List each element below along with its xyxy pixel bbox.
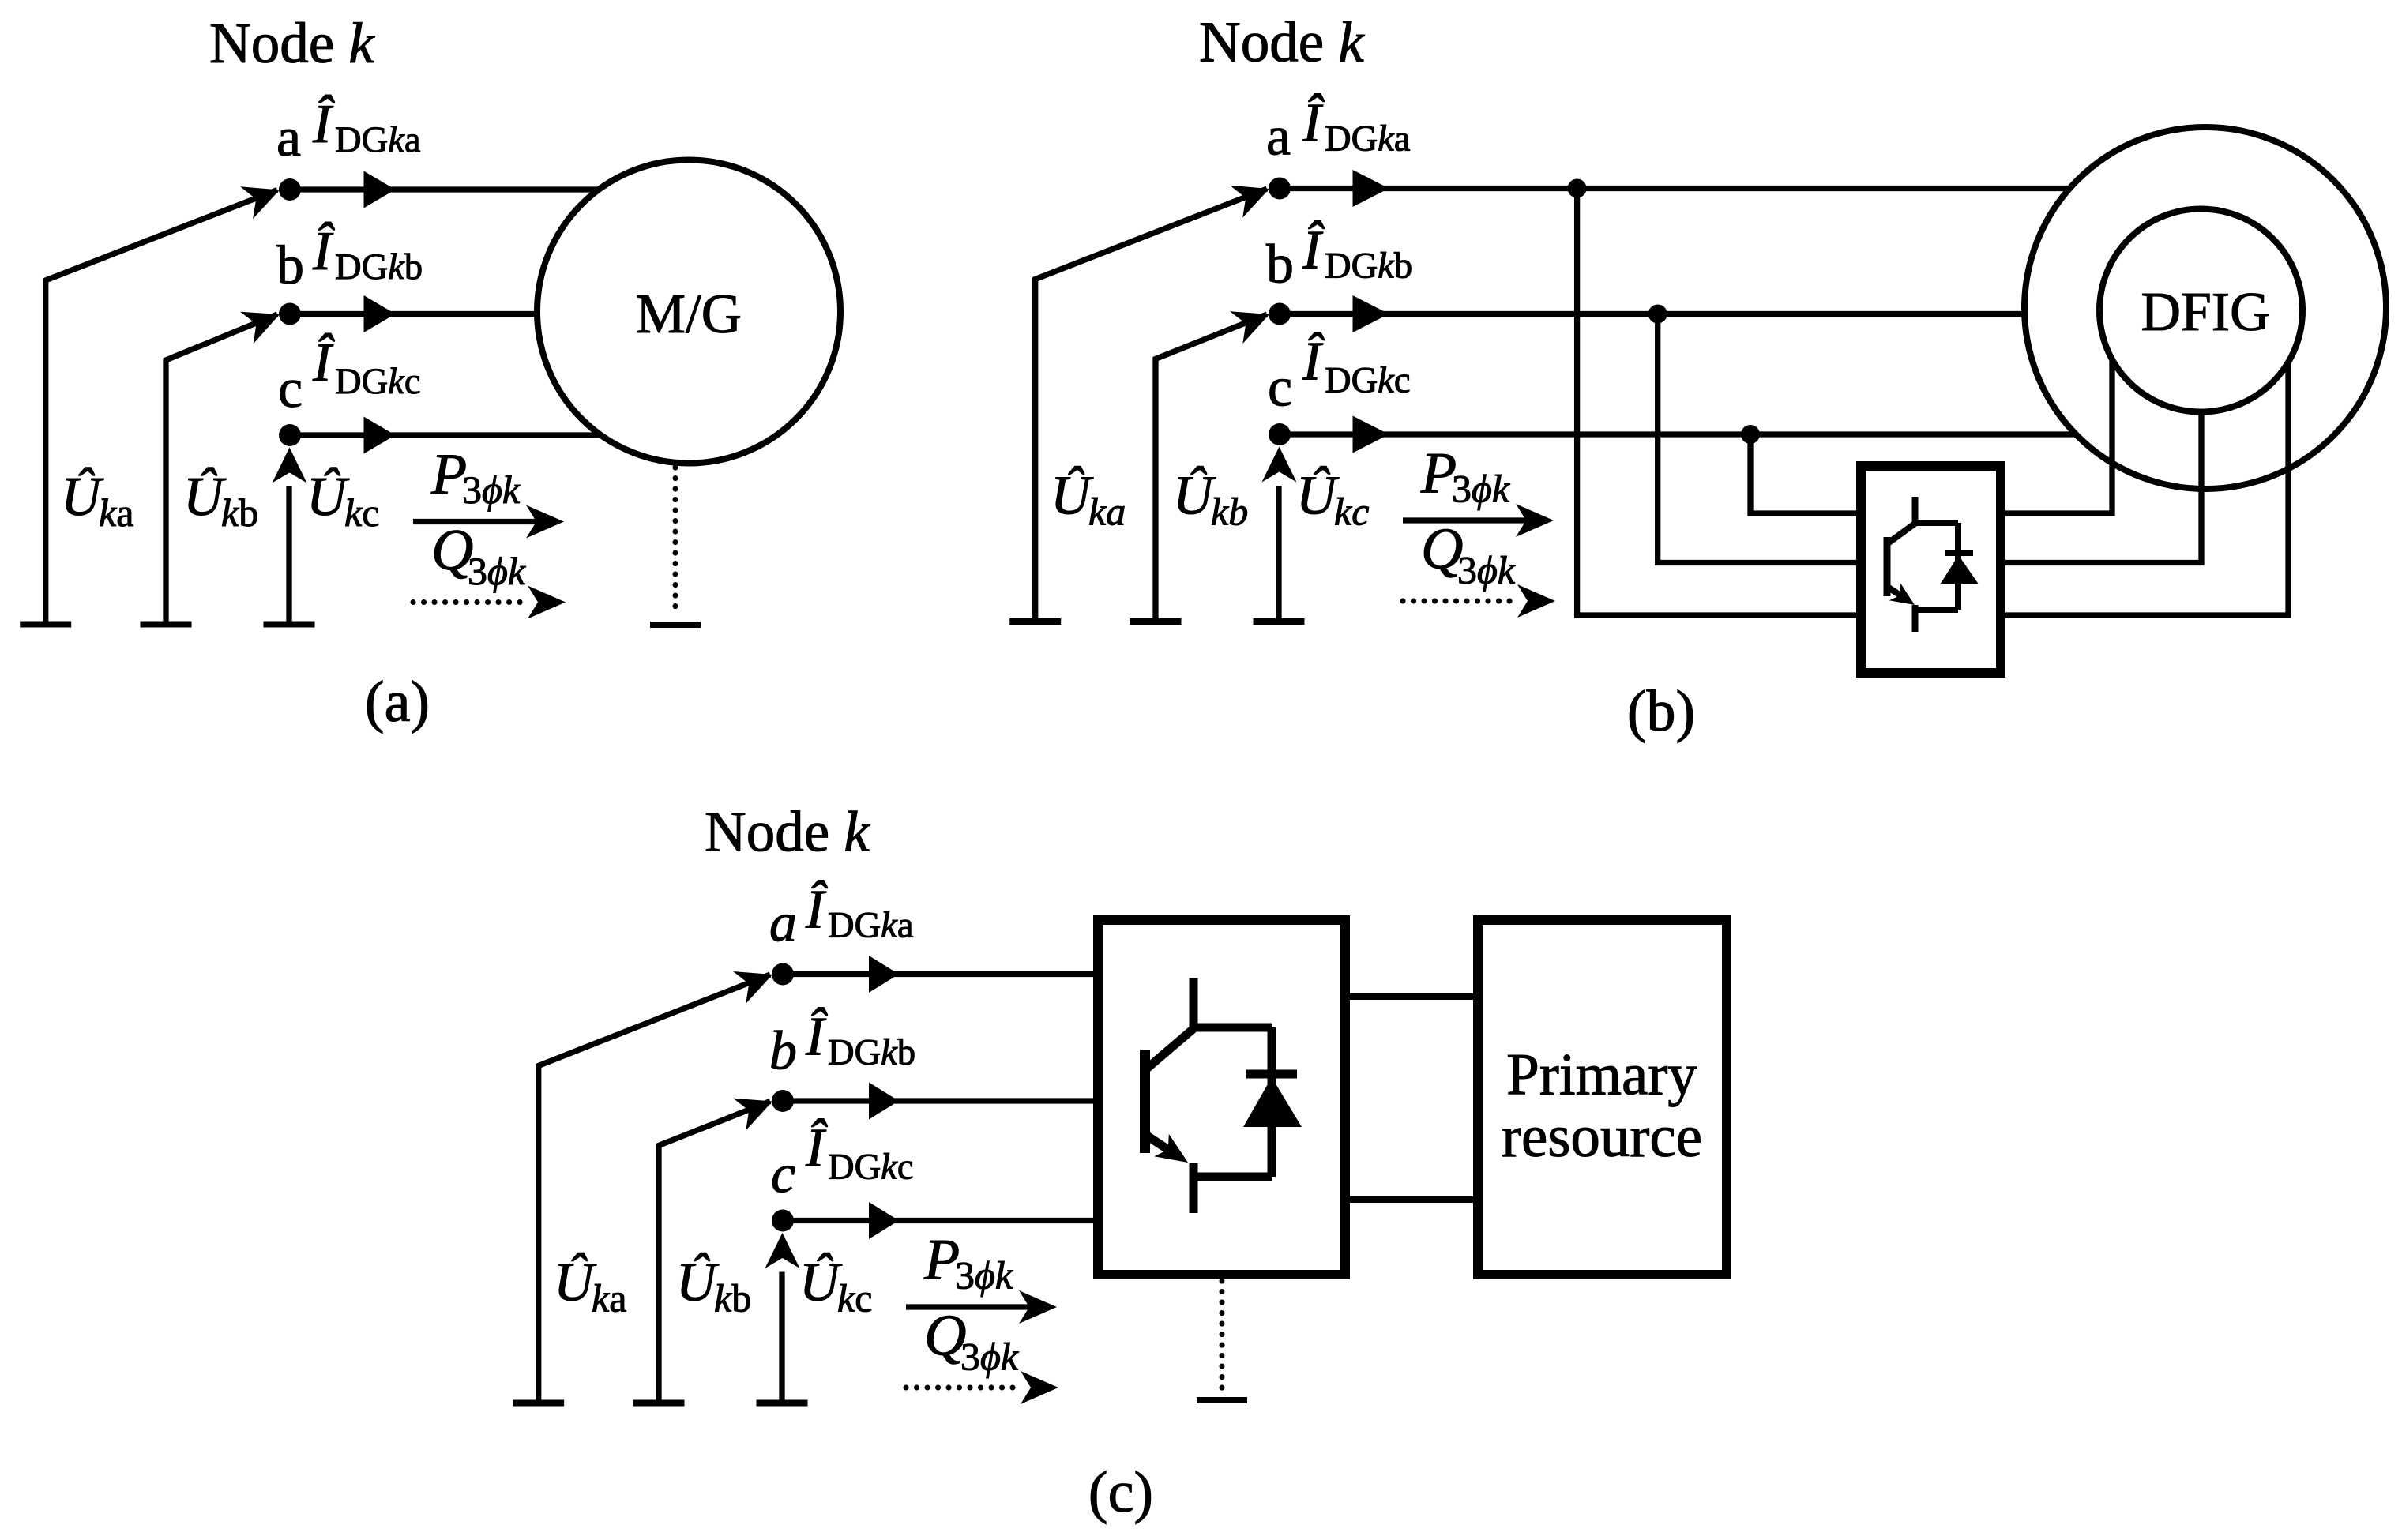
svg-text:3ϕk: 3ϕk (468, 549, 526, 593)
converter box (b) (1861, 466, 2001, 673)
wire: b phase-c voltage riser with upward arrow into node c (1262, 447, 1297, 622)
current label I_DGkb (a) (312, 221, 423, 287)
svg-text:a: a (276, 107, 301, 168)
svg-text:3ϕk: 3ϕk (955, 1253, 1013, 1298)
wire: (a) phase c line from node to M/G (290, 432, 600, 438)
wire: a phase-c voltage riser with upward arrow into node c (273, 448, 307, 625)
voltage label U_kb (c) (676, 1253, 751, 1320)
label P_3phik (a) (430, 442, 521, 512)
svg-text:DGka: DGka (335, 120, 420, 160)
primary resource box (1478, 920, 1727, 1275)
wire: converter to primary resource lower link (1345, 1196, 1478, 1203)
label Q_3phik (b) (1421, 517, 1516, 592)
wire: b phase-a voltage feeder from ground, diagonal arrow into node a (1036, 186, 1269, 622)
node c phase b terminal dot (772, 1090, 794, 1112)
current label I_DGkc (c) (805, 1118, 913, 1188)
wire: (c) phase c line from node to converter (783, 1218, 1098, 1223)
wire: converter to rotor phase b (b) (2001, 411, 2201, 563)
svg-text:Û: Û (183, 467, 227, 528)
wire: dotted neutral/ground link under converter (c) (1220, 1281, 1225, 1393)
svg-text:kb: kb (1211, 490, 1248, 534)
current label I_DGkc (a) (312, 332, 420, 402)
node b phase a terminal dot (1269, 178, 1291, 200)
svg-text:b: b (276, 235, 304, 296)
wire: (c) phase a line from node to converter (783, 971, 1098, 977)
current label I_DGkb (b) (1302, 220, 1412, 287)
wire: rotor phase c tap down and to converter (1750, 434, 1861, 513)
wire: (c) phase b line from node to converter (783, 1098, 1098, 1103)
ground symbol under converter (c) (1197, 1397, 1247, 1403)
wire: (a) phase b line from node to M/G (290, 311, 540, 317)
svg-text:3ϕk: 3ϕk (1452, 467, 1510, 511)
voltage label U_kb (a) (183, 467, 258, 535)
svg-text:Node k: Node k (1199, 10, 1365, 74)
svg-text:kc: kc (344, 490, 379, 535)
wire: (b) phase c line from node to DFIG stator (1280, 431, 2076, 437)
svg-text:DGkc: DGkc (1325, 361, 1410, 401)
wire: rotor phase a tap down and to converter (1577, 189, 1861, 616)
arrowhead: current I_DGkb direction (a) (364, 295, 396, 332)
svg-text:ka: ka (99, 490, 133, 535)
svg-text:kc: kc (1334, 490, 1369, 534)
node b phase b terminal dot (1269, 303, 1291, 325)
ground symbol under U_kb (c) (633, 1400, 685, 1407)
svg-text:c: c (278, 359, 303, 419)
svg-text:kb: kb (714, 1276, 751, 1320)
svg-text:a: a (1266, 107, 1291, 167)
svg-text:3ϕk: 3ϕk (960, 1335, 1019, 1379)
ground symbol under M/G (650, 622, 701, 628)
voltage label U_kc (b) (1296, 466, 1369, 534)
svg-text:b: b (769, 1021, 797, 1082)
junction dot on phase b (rotor tap) (1648, 305, 1667, 324)
label P_3phik (c) (923, 1228, 1013, 1298)
wire: (b) phase b line from node to DFIG stator (1280, 311, 2025, 317)
label Q_3phik (a) (431, 518, 526, 593)
svg-text:DGka: DGka (1325, 119, 1410, 160)
svg-text:3ϕk: 3ϕk (462, 468, 521, 512)
wire: (a) phase a line from node to M/G (290, 186, 600, 192)
arrowhead: current I_DGkc direction (b) (1353, 416, 1389, 453)
svg-text:DGkc: DGkc (828, 1147, 913, 1188)
DFIG rotor inner circle (2099, 209, 2302, 412)
label P_3phik (b) (1420, 441, 1510, 511)
ground symbol under U_ka (b) (1009, 618, 1061, 625)
svg-text:DGkb: DGkb (1325, 246, 1412, 287)
svg-text:Û: Û (1051, 466, 1094, 527)
arrow: active power P flow (c) (906, 1290, 1057, 1324)
svg-text:Û: Û (799, 1253, 843, 1313)
svg-text:(c): (c) (1088, 1460, 1153, 1525)
node b phase c terminal dot (1269, 423, 1291, 445)
svg-text:Û: Û (676, 1253, 720, 1313)
voltage label U_ka (b) (1051, 466, 1126, 534)
wire: converter to primary resource upper link (1345, 993, 1478, 1000)
svg-text:a: a (769, 893, 797, 954)
svg-text:DGka: DGka (828, 906, 913, 946)
junction dot on phase c (rotor tap) (1741, 425, 1760, 444)
svg-text:ka: ka (1088, 490, 1126, 534)
svg-text:DGkb: DGkb (828, 1033, 915, 1073)
voltage label U_ka (c) (554, 1253, 626, 1320)
arrowhead: current I_DGkc direction (a) (364, 417, 396, 454)
svg-text:c: c (1268, 358, 1292, 419)
svg-text:Node k: Node k (705, 800, 870, 864)
svg-text:kb: kb (221, 490, 258, 535)
wire: rotor phase b tap down and to converter (1658, 314, 1861, 563)
ground symbol under U_kc (a) (264, 622, 315, 628)
svg-text:Û: Û (554, 1253, 597, 1313)
current label I_DGkc (b) (1302, 332, 1410, 401)
svg-text:Û: Û (1296, 466, 1340, 527)
ground symbol under U_ka (a) (20, 622, 71, 628)
ground symbol under U_kb (b) (1130, 618, 1182, 625)
svg-text:DGkb: DGkb (335, 247, 423, 287)
svg-text:Û: Û (61, 467, 104, 528)
label Primary resource (1502, 1042, 1702, 1170)
arrow: active power P flow (a) (413, 505, 564, 539)
node a phase b terminal dot (279, 303, 301, 325)
svg-text:(a): (a) (365, 670, 430, 734)
arrow: reactive power Q flow, dotted (c) (906, 1371, 1058, 1404)
wire: dotted neutral/ground link under M/G (673, 468, 678, 616)
wire: c phase-b voltage feeder from ground, diagonal arrow into node b (659, 1099, 772, 1403)
IGBT with antiparallel diode inside converter (c) (1145, 978, 1302, 1214)
ground symbol under U_kc (c) (757, 1400, 808, 1407)
wire: b phase-b voltage feeder from ground, diagonal arrow into node b (1156, 311, 1269, 621)
svg-text:b: b (1266, 235, 1294, 295)
label Q_3phik (c) (924, 1304, 1019, 1379)
svg-text:Û: Û (306, 467, 350, 528)
arrowhead: current I_DGkc direction (c) (869, 1202, 899, 1239)
ground symbol under U_kc (b) (1254, 618, 1305, 625)
voltage label U_kb (b) (1173, 466, 1248, 534)
node a phase a terminal dot (279, 178, 301, 201)
voltage label U_kc (a) (306, 467, 379, 535)
wire: converter to rotor phase a (b) (2001, 362, 2288, 615)
svg-text:Primary: Primary (1506, 1042, 1697, 1108)
svg-text:DGkc: DGkc (335, 362, 420, 402)
node c phase a terminal dot (772, 963, 794, 986)
wire: c phase-a voltage feeder from ground, diagonal arrow into node a (539, 971, 772, 1403)
current label I_DGka (c) (805, 880, 913, 946)
arrowhead: current I_DGkb direction (c) (869, 1083, 899, 1120)
svg-text:c: c (771, 1144, 795, 1205)
arrow: reactive power Q flow, dotted (b) (1403, 584, 1555, 618)
node a phase c terminal dot (279, 424, 301, 446)
svg-text:ka: ka (592, 1276, 626, 1320)
arrowhead: current I_DGka direction (a) (364, 171, 396, 208)
svg-text:Û: Û (1173, 466, 1216, 527)
svg-text:resource: resource (1502, 1104, 1702, 1170)
arrow: active power P flow (b) (1403, 504, 1554, 537)
wire: converter to rotor phase c (b) (2001, 359, 2112, 513)
converter box (c) (1098, 920, 1345, 1275)
IGBT with antiparallel diode inside converter (b) (1887, 497, 1979, 632)
current label I_DGkb (c) (805, 1007, 915, 1073)
wire: c phase-c voltage riser with upward arrow into node c (765, 1233, 800, 1403)
arrow: reactive power Q flow, dotted (a) (413, 586, 566, 619)
junction dot on phase a (rotor tap) (1568, 179, 1587, 198)
svg-text:DFIG: DFIG (2141, 282, 2269, 343)
wire: a phase-a voltage feeder from ground, diagonal arrow into node a (46, 186, 280, 624)
voltage label U_kc (c) (799, 1253, 872, 1320)
ground symbol under U_kb (a) (141, 622, 192, 628)
arrowhead: current I_DGka direction (b) (1353, 170, 1389, 207)
current label I_DGka (a) (312, 94, 420, 160)
node c phase c terminal dot (772, 1210, 794, 1232)
svg-text:(b): (b) (1627, 679, 1695, 744)
ground symbol under U_ka (c) (513, 1400, 564, 1407)
DFIG stator outer circle (2024, 127, 2386, 489)
svg-text:3ϕk: 3ϕk (1457, 548, 1516, 592)
machine M/G circle (537, 160, 840, 464)
svg-text:Node k: Node k (209, 11, 375, 75)
svg-text:kc: kc (837, 1276, 872, 1320)
wire: (b) phase a line from node to DFIG stator (1280, 186, 2069, 191)
wire: a phase-b voltage feeder from ground, diagonal arrow into node b (166, 312, 280, 624)
voltage label U_ka (a) (61, 467, 133, 535)
svg-text:M/G: M/G (636, 284, 742, 345)
arrowhead: current I_DGkb direction (b) (1353, 295, 1389, 332)
arrowhead: current I_DGka direction (c) (869, 956, 899, 993)
current label I_DGka (b) (1302, 93, 1410, 160)
